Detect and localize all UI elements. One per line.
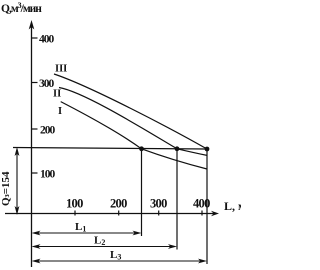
svg-text:400: 400: [39, 34, 55, 46]
y tick 100: [32, 172, 38, 174]
x tick 400: [201, 211, 203, 216]
curve III: [54, 74, 207, 149]
svg-text:100: 100: [66, 197, 83, 211]
x tick 100: [74, 211, 76, 216]
svg-text:III: III: [55, 64, 67, 75]
y-axis arrowhead: [29, 20, 35, 30]
L2 dimension arrow: [35, 246, 175, 248]
Q dimension vertical line: [16, 152, 18, 210]
drop line from dot 1: [141, 149, 143, 236]
L3 dimension arrow: [35, 260, 205, 262]
svg-text:200: 200: [110, 197, 127, 211]
drop line from dot 3: [206, 149, 208, 264]
node dot 2: [175, 146, 180, 151]
y-axis: [31, 23, 33, 267]
x-axis: [5, 213, 216, 215]
svg-text:300: 300: [150, 197, 167, 211]
svg-text:I: I: [58, 106, 62, 117]
svg-text:Qз=154: Qз=154: [0, 171, 12, 206]
node dot 3: [205, 147, 210, 152]
node dot 1: [139, 146, 144, 151]
Q dim arrow down: [15, 206, 20, 215]
svg-text:II: II: [53, 89, 61, 100]
svg-text:100: 100: [40, 169, 56, 181]
curve I: [61, 102, 207, 169]
x tick 200: [118, 211, 120, 216]
y tick 300: [32, 82, 38, 84]
x-axis arrowhead: [211, 211, 219, 216]
svg-text:L, м: L, м: [224, 199, 241, 213]
curve II: [59, 88, 207, 156]
L1 dimension arrow: [35, 232, 139, 234]
svg-text:Q,м3/мин: Q,м3/мин: [1, 1, 42, 15]
drop line from dot 2: [176, 149, 178, 250]
y tick 400: [32, 37, 38, 39]
svg-text:200: 200: [40, 125, 56, 137]
Q dim arrow up: [15, 147, 20, 156]
horizontal line Q=154: [13, 148, 207, 150]
x tick 300: [158, 211, 160, 216]
y tick 200: [32, 128, 38, 130]
